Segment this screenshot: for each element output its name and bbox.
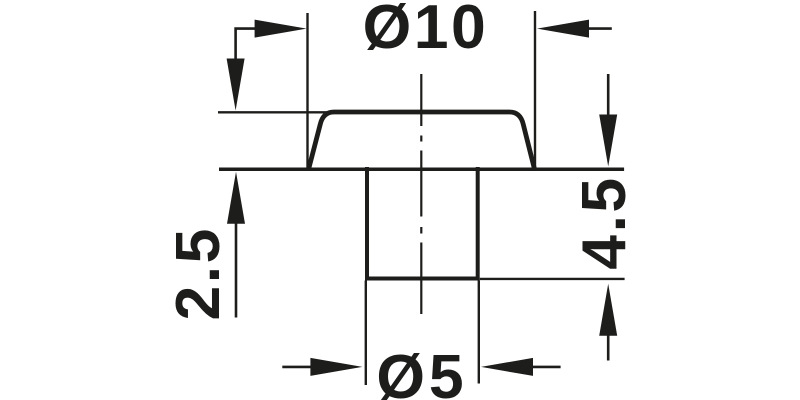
extension line Ø5 left <box>365 281 367 386</box>
wire: head top extension line (left of head) <box>218 111 332 113</box>
dimension 2.5 bottom arrow <box>227 172 245 318</box>
wire: mounting surface line <box>219 168 624 172</box>
dimension Ø5 right arrow <box>481 358 561 376</box>
svg-text:2.5: 2.5 <box>163 226 233 320</box>
dimension 4.5 top arrow <box>599 74 617 167</box>
cap head outline <box>308 112 535 170</box>
dimension Ø5 left arrow <box>282 358 362 376</box>
extension line Ø10 left <box>306 13 308 168</box>
svg-text:4.5: 4.5 <box>569 175 639 269</box>
cap stem outline <box>367 167 478 279</box>
centerline (dash-dot) <box>420 74 422 314</box>
extension line 4.5 bottom <box>480 278 625 280</box>
extension line Ø5 right <box>478 281 480 384</box>
dimension Ø10 right arrow <box>537 20 612 38</box>
svg-text:Ø10: Ø10 <box>363 0 489 62</box>
dimension Ø10 left arrow <box>227 20 307 111</box>
dimension 4.5 bottom arrow <box>599 284 617 361</box>
svg-text:Ø5: Ø5 <box>376 342 467 400</box>
extension line Ø10 right <box>534 11 536 168</box>
